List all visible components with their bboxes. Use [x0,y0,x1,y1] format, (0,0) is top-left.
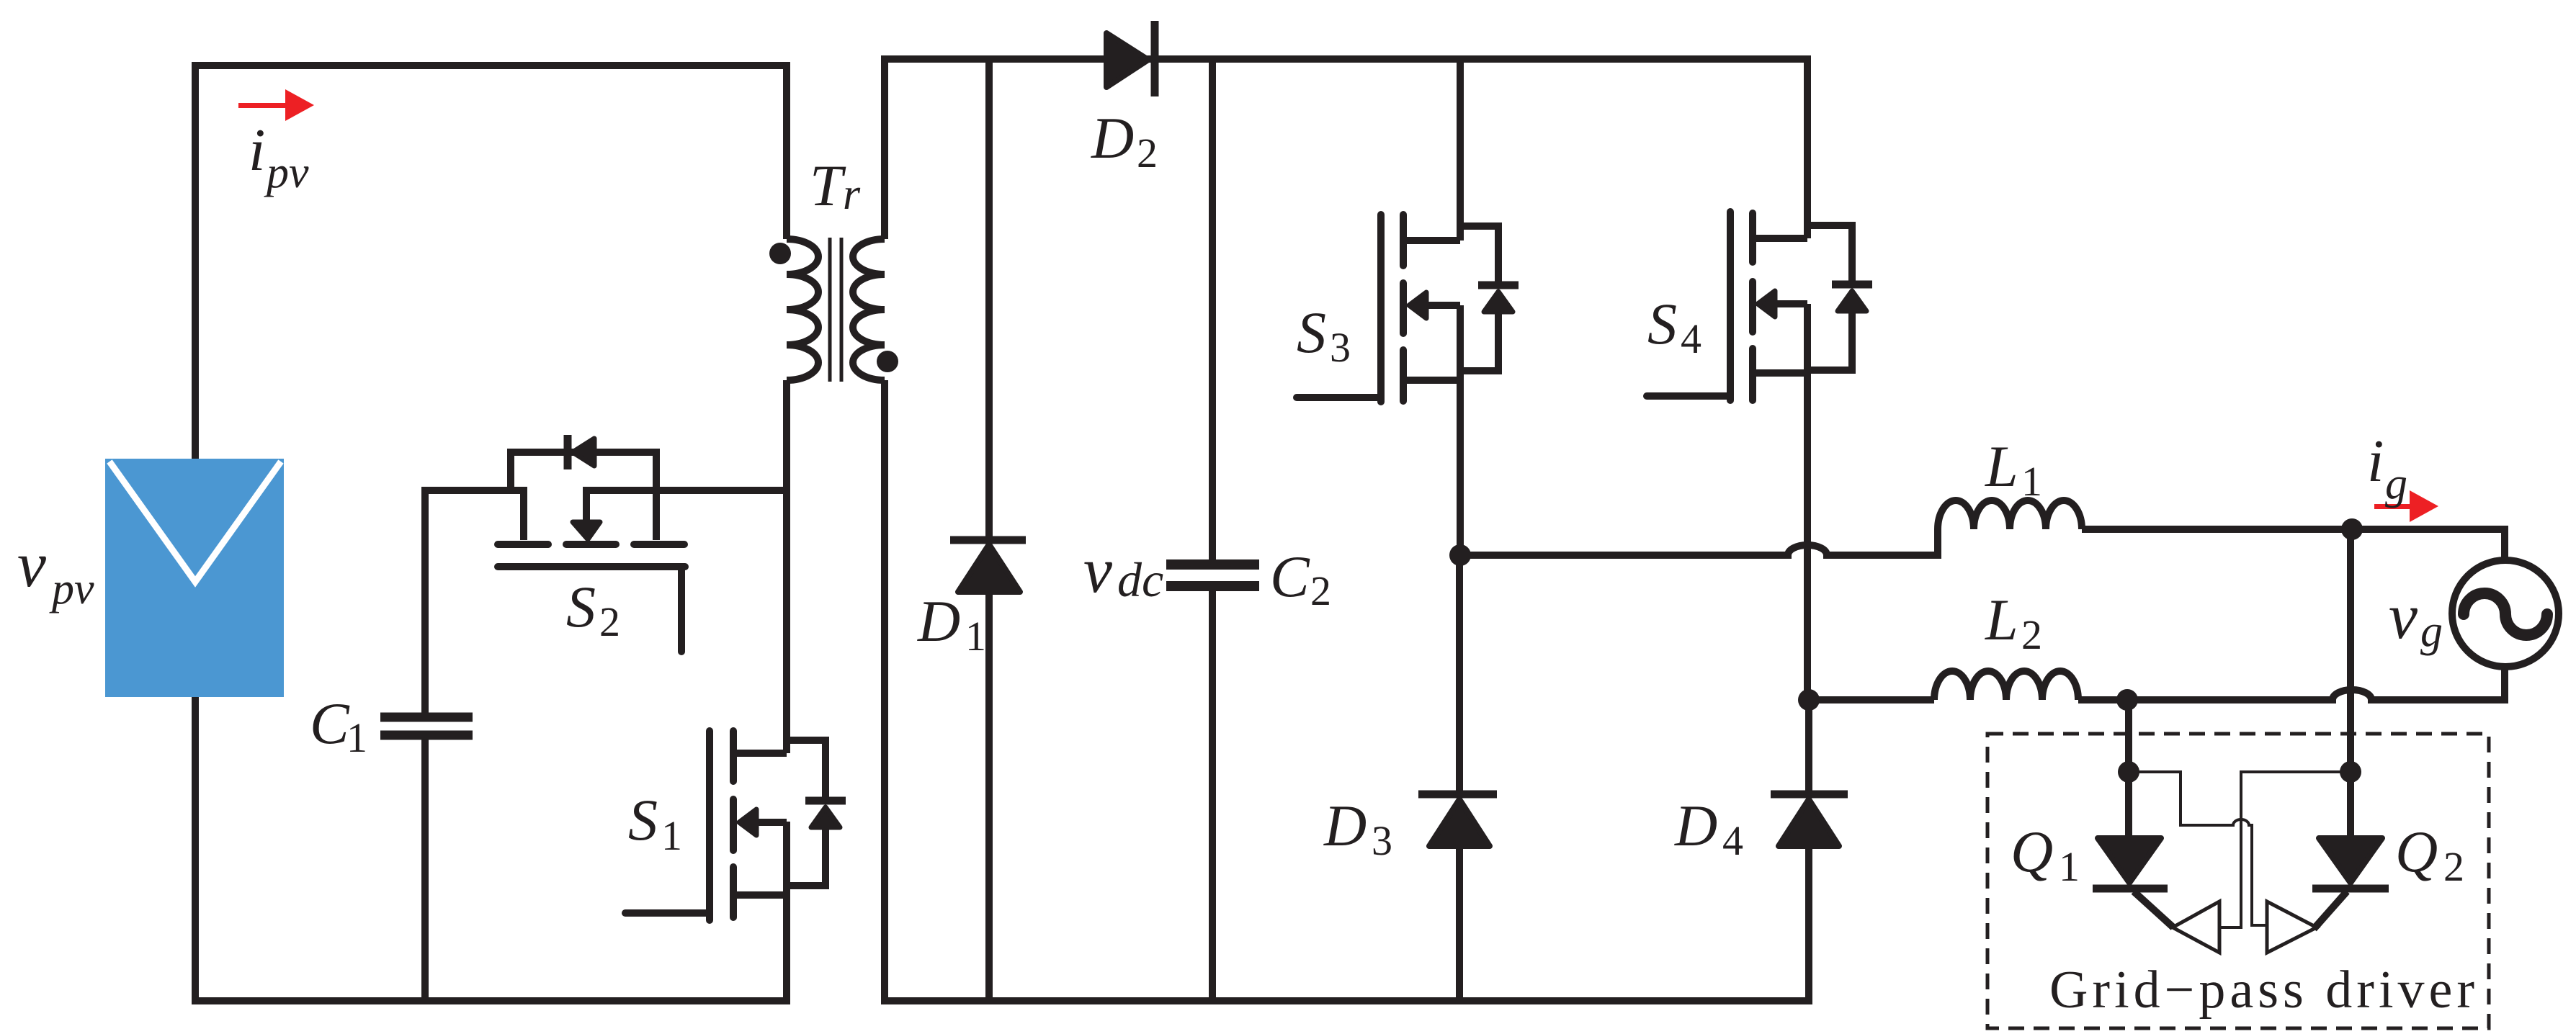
svg-text:i: i [2367,428,2384,495]
svg-text:1: 1 [661,812,682,859]
current arrow i_pv [238,89,314,121]
C1 top plate [380,713,473,722]
wire: midpoint to L1 (hops over S4 leg) [1460,529,1938,555]
S1 gate bar [706,731,713,920]
Tr primary winding [787,239,818,380]
svg-text:1: 1 [346,714,367,761]
wire: D1 top vertical [985,59,993,540]
svg-text:D: D [1091,105,1134,171]
wire: S2 drain lead [421,490,524,540]
svg-text:S: S [1647,291,1677,356]
wire: secondary bottom rail [885,997,1812,1004]
label C2 [1270,544,1331,614]
S4 substrate arrow [1775,300,1807,307]
wire: Q1 branch vertical [2125,700,2132,838]
Tr secondary polarity dot [877,351,898,372]
transistor S3 [1297,59,1519,555]
svg-text:L: L [1985,433,2018,499]
svg-text:Grid−pass driver: Grid−pass driver [2049,961,2479,1020]
label C1 [310,691,367,761]
S4 body diode triangle [1838,291,1866,311]
S4 body diode branch top [1807,225,1852,282]
svg-text:C: C [1270,544,1310,609]
svg-text:D: D [1323,793,1367,858]
node: grid top junction [2341,518,2363,540]
svg-text:2: 2 [2021,611,2042,658]
svg-text:v: v [1083,535,1112,606]
wire: gate-drive path from Q2 node to left driver [2219,772,2351,927]
S4 channel segments [1749,213,1756,262]
label D2 [1091,105,1158,176]
S3 channel segments [1400,215,1407,266]
svg-text:Q: Q [2011,819,2053,884]
wire: S4 drain stub [1753,235,1807,242]
S1 body diode cathode bar [805,797,846,805]
wire: S4 source stub [1753,369,1807,377]
label D4 [1674,793,1743,864]
C1 bottom plate [380,731,473,740]
Tr secondary winding [853,239,885,380]
S2 body diode cathode bar [564,435,572,469]
svg-text:pv: pv [49,565,94,613]
S3 substrate arrow [1426,302,1460,309]
transistor S1 (main MOSFET) [625,731,846,1004]
wire: C1 bottom branch [421,739,429,1004]
svg-text:2: 2 [599,598,620,645]
D1 triangle [958,544,1020,592]
svg-text:S: S [628,787,658,853]
label v_pv [17,529,94,613]
wire: secondary top vertical [881,55,888,239]
label S3 [1297,300,1351,371]
D4 triangle [1779,799,1839,846]
S2 gate bar [498,563,685,570]
wire: PV bottom to bottom rail [192,693,199,1004]
svg-text:T: T [810,153,846,218]
wire: S3 source stub [1403,377,1460,384]
svg-text:C: C [310,691,350,756]
thyristor Q2 [2312,838,2389,929]
S2 gate lead [678,568,685,652]
label L2 [1985,587,2042,658]
wire: S1 source stub [733,891,787,899]
svg-text:pv: pv [264,148,309,197]
svg-text:L: L [1985,587,2018,652]
AC source v_g [2452,560,2559,667]
svg-text:1: 1 [2059,843,2080,890]
wire: D3 top vertical [1456,555,1463,794]
wire: S4 source vertical to midpoint [1804,304,1811,700]
svg-text:i: i [249,117,265,184]
label D1 [917,588,986,660]
driver amplifier triangle (right) [2267,902,2317,953]
wire: secondary bottom vertical [881,380,888,1004]
D3 cathode bar [1418,791,1497,799]
label i_pv [249,117,309,197]
diode D3 branch [1418,555,1497,1004]
S2 substrate arrow [583,490,590,521]
wire: S1 source vertical to rail [783,822,790,1004]
inductor L1 [1938,500,2082,529]
svg-text:S: S [1297,300,1326,365]
S3 gate lead [1297,394,1381,401]
S4 body diode cathode bar [1832,281,1872,289]
C2 bottom plate [1166,581,1259,591]
svg-text:S: S [566,574,596,639]
label L1 [1985,433,2042,505]
thyristor Q1 [2093,838,2173,927]
diode D4 branch [1771,700,1848,1004]
wire: L1 to grid top [2082,529,2505,562]
label Q1 [2011,819,2080,890]
wire: C1 top branch [421,487,429,714]
svg-text:v: v [2389,581,2418,652]
S3 body diode cathode bar [1478,282,1519,289]
svg-text:2: 2 [1310,567,1331,614]
S4 body diode branch bottom [1807,310,1852,370]
S1 body diode triangle [811,807,840,827]
inductor L2 [1934,671,2078,700]
D1 cathode bar [950,536,1026,544]
wire: S3 drain stub [1403,237,1460,244]
label Q2 [2395,819,2464,890]
svg-text:dc: dc [1117,552,1163,607]
driver amplifier triangle (left) [2173,902,2219,953]
Tr primary polarity dot [769,243,791,264]
node: Q2 gate-drive tap [2340,761,2361,783]
label S4 [1647,291,1701,362]
wire: primary bottom rail [192,997,790,1004]
S1 body diode branch bottom [787,825,826,886]
wire: S1 drain stub [733,750,787,757]
wire: primary top vertical [783,66,790,239]
diode D2 [1106,21,1155,96]
D3 triangle [1429,799,1490,846]
capacitor C1 [380,487,473,1004]
svg-text:4: 4 [1722,817,1743,864]
wire: D3 bottom vertical [1456,845,1463,1004]
label S1 [628,787,682,859]
current arrow i_g [2374,490,2438,522]
Tr core lines [828,238,832,382]
S4 gate bar [1727,212,1734,400]
svg-text:2: 2 [2443,843,2464,890]
svg-text:g: g [2385,459,2407,508]
wire: D1 bottom vertical [985,590,993,1004]
transistor S2 (clamp MOSFET, horizontal) [421,435,790,652]
S4 gate lead [1647,392,1730,400]
node: L2 junction to Q1 [2116,689,2138,711]
S1 channel segments [730,731,737,781]
S3 body diode triangle [1484,292,1513,312]
wire: primary bottom vertical (to S1 drain) [783,380,790,753]
wire: S4 drain vertical [1804,55,1811,238]
S1 substrate arrow [756,819,787,826]
svg-text:1: 1 [965,613,986,660]
node: S3 midpoint junction [1449,544,1471,566]
svg-text:2: 2 [1137,130,1158,176]
S2 channel segments [498,544,685,652]
S3 gate bar [1377,215,1385,402]
wire: C2 top vertical [1209,59,1216,560]
wire: S2 source stub [653,490,660,540]
PV module [105,459,284,697]
wire: Q2 branch vertical [2347,529,2354,838]
label i_g [2367,428,2407,508]
svg-text:Q: Q [2395,819,2438,884]
C2 top plate [1166,559,1259,570]
node: Q1 gate-drive tap [2118,761,2139,783]
label v_g [2389,581,2443,656]
svg-text:g: g [2420,607,2443,656]
svg-text:3: 3 [1330,324,1351,371]
svg-text:3: 3 [1372,817,1392,864]
S3 body diode branch bottom [1460,311,1498,371]
label S2 [566,574,620,645]
diode D1 branch [950,59,1026,1004]
wire: primary top rail [192,62,790,69]
wire: S3 drain vertical [1457,59,1464,240]
wire: L2 to grid bottom (hops over Q2 leg) [2078,667,2505,700]
label D3 [1323,793,1392,864]
S1 body diode branch top [787,740,826,799]
wire: S2 source lead to transformer [583,487,790,494]
svg-text:1: 1 [2021,458,2042,505]
S1 gate lead [625,909,710,917]
Grid-pass driver dashed box [1987,734,2489,1028]
svg-text:r: r [843,170,861,219]
wire: primary left vertical (top rail to PV) [192,62,199,462]
S2 body diode branch [511,452,656,490]
node: S4 midpoint junction [1798,689,1820,711]
svg-text:D: D [1674,793,1717,858]
svg-text:4: 4 [1681,315,1701,362]
wire: D4 bottom vertical [1805,845,1812,1004]
svg-text:D: D [917,588,960,654]
D4 cathode bar [1771,791,1848,799]
wire: S4 midpoint to L2 [1809,696,1934,703]
wire: secondary top rail [881,55,1808,63]
wire: S3 source vertical to midpoint [1457,305,1464,555]
capacitor C2 branch [1166,59,1259,1004]
wire: gate-drive path from Q1 node to right driver [2129,772,2267,925]
S3 body diode branch top [1460,226,1498,283]
svg-text:v: v [17,529,46,601]
S2 body diode triangle [573,439,594,466]
label v_dc [1083,535,1163,607]
transformer Tr [787,55,885,1004]
wire: D4 top vertical [1805,700,1812,794]
wire: C2 bottom vertical [1209,591,1216,1004]
label Tr [810,153,861,219]
transistor S4 [1647,55,1872,700]
